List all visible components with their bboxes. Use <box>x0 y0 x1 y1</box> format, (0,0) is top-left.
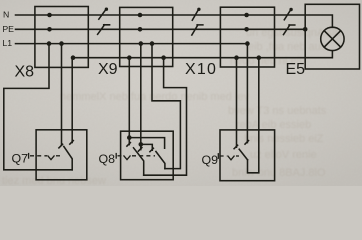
switch Q7 contact tick 1 <box>59 144 63 148</box>
paper background <box>0 0 362 186</box>
junction Q8 b <box>139 142 144 147</box>
junction box X9 <box>120 7 173 66</box>
junction box X10 <box>220 7 274 67</box>
cable mark slash N 3 <box>284 10 290 20</box>
svg-text:Q7: Q7 <box>12 151 29 165</box>
wire lamp return <box>73 51 332 58</box>
terminal X10 q9-1 <box>234 55 239 60</box>
wire X8 to Q7 contact 2 <box>71 58 73 143</box>
junction box X8 <box>35 7 88 68</box>
switch Q7 contact tick 2 <box>70 141 74 145</box>
terminal X10 PE <box>244 27 249 32</box>
wire X10 to Q9 contact 2 <box>246 44 248 143</box>
switch Q8 blade 1 <box>134 148 144 175</box>
terminal X8 N <box>47 13 52 18</box>
ghost bleed-through text <box>2 27 341 187</box>
cable mark dot N 3 <box>289 8 292 11</box>
switch Q8 blade 2 <box>156 152 165 169</box>
cable mark slash PE 3 <box>284 25 295 35</box>
svg-text:L1: L1 <box>2 38 12 48</box>
wire L1 bus <box>16 43 248 45</box>
svg-text:X10: X10 <box>185 61 217 78</box>
terminal X10 common <box>257 55 262 60</box>
switch box Q9 <box>220 130 275 181</box>
wire X9 to Q8 output d <box>144 58 187 176</box>
terminal X8 L1 b <box>59 41 64 46</box>
terminal X10 L-end <box>245 41 250 46</box>
switch Q9 blade <box>239 149 247 160</box>
svg-text:Q9: Q9 <box>202 153 219 167</box>
svg-text:Q8: Q8 <box>99 152 116 166</box>
junction Q8 a <box>127 135 132 140</box>
switch Q8 cross link 1 <box>129 138 164 149</box>
actuator Q8 dashes <box>116 153 155 160</box>
wire N bus <box>16 15 333 27</box>
terminal X10 N <box>244 13 249 18</box>
terminal X8 L1 a <box>47 41 52 46</box>
terminal X8 PE <box>47 27 52 32</box>
terminal E5 PE <box>303 27 308 32</box>
svg-text:N: N <box>3 9 9 19</box>
actuator Q9 dashes <box>218 153 239 160</box>
terminal X9 PE <box>138 27 143 32</box>
svg-text:X8: X8 <box>15 63 35 80</box>
wire X9 to Q8 output c <box>152 44 180 169</box>
terminal X8 lamp wire <box>71 55 76 60</box>
actuator Q7 dashes <box>29 153 63 160</box>
svg-text:X9: X9 <box>98 61 118 78</box>
wire L1 to Q7 common (around left) <box>4 44 72 170</box>
wire X10 to Q9 contact 1 <box>236 58 238 148</box>
svg-text:PE: PE <box>2 24 14 34</box>
cable mark slash N 2 <box>192 10 198 21</box>
switch Q8 contact tick a <box>127 143 130 147</box>
terminal X9 d <box>161 55 166 60</box>
wire PE bus <box>16 28 306 30</box>
wire Q9 common to X10 <box>248 58 259 173</box>
lamp E5 cross <box>324 31 340 47</box>
switch Q9 contact tick 1 <box>234 145 238 149</box>
switch Q9 contact tick 2 <box>245 141 249 145</box>
switch Q7 blade <box>64 146 72 169</box>
switch Q8 contact tick b <box>138 148 142 152</box>
cable mark dot N 1 <box>105 8 108 11</box>
switch box Q8 <box>121 131 174 180</box>
switch box Q7 <box>36 130 87 180</box>
cable mark dot N 2 <box>197 8 200 11</box>
lamp E5 circle <box>321 27 344 50</box>
terminal X9 N <box>138 13 143 18</box>
switch Q8 cross link 2 <box>141 144 153 150</box>
cable mark slash PE 2 <box>192 25 203 35</box>
svg-text:E5: E5 <box>286 61 306 78</box>
terminal X9 a <box>127 55 132 60</box>
lamp outlet box E5 <box>305 4 359 69</box>
cable mark slash N 1 <box>99 10 106 20</box>
terminal X9 b <box>139 41 144 46</box>
switch Q8 contact tick c <box>150 148 154 152</box>
wire X8 to Q7 contact 1 <box>61 44 63 146</box>
cable mark slash PE 1 <box>98 25 110 35</box>
terminal X9 c <box>150 41 155 46</box>
wire X9 to Q8 contact a <box>128 58 130 145</box>
wire X9 to Q8 contact b <box>140 44 142 150</box>
